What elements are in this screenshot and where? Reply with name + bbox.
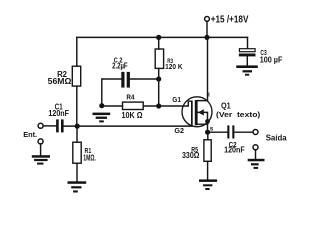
junction node R3-C2 [156, 76, 161, 81]
wire C2 right lead [130, 78, 159, 80]
junction node source [205, 130, 210, 135]
svg-text:Saída: Saída [266, 133, 287, 143]
junction node C1-R2-G2 [75, 124, 80, 129]
svg-text:100 µF: 100 µF [260, 55, 283, 64]
ground at C2-R4 node [93, 113, 111, 116]
terminal Ent lower circle [38, 139, 43, 144]
svg-text:1MΩ.: 1MΩ. [83, 153, 96, 162]
wire source to output capacitor [208, 131, 228, 133]
wire R1 top [76, 126, 78, 142]
wire R4 left lead [102, 105, 123, 107]
svg-text:330Ω: 330Ω [182, 151, 200, 160]
wire node C2 to node R4 [158, 79, 160, 106]
svg-text:56MΩ: 56MΩ [48, 76, 72, 86]
ground at Saida [248, 159, 265, 162]
wire R4 right lead [143, 105, 159, 107]
svg-text:d: d [207, 92, 210, 98]
wire Q1 drain stub [198, 37, 208, 100]
svg-text:120nF: 120nF [48, 109, 69, 118]
wire R5 top [207, 132, 209, 140]
junction node C2-R4 ground [99, 103, 104, 108]
wire input to C1 [43, 125, 56, 127]
transistor Q1 body circle [182, 97, 212, 127]
supply terminal circle [205, 17, 210, 22]
wire R5 bottom [207, 161, 209, 179]
transistor Q1 substrate arrow head [198, 109, 204, 115]
svg-text:G2: G2 [174, 126, 184, 135]
wire top supply rail [77, 36, 248, 38]
wire C3 branch from rail [247, 37, 249, 48]
svg-text:R4: R4 [126, 93, 135, 102]
resistor R3 [155, 49, 163, 68]
ground at R5 [199, 179, 217, 182]
svg-text:120 K: 120 K [165, 64, 183, 71]
wire Saida ground stem [255, 150, 257, 159]
transistor Q1 channel bar [195, 100, 198, 125]
wire Q1 source stub [198, 124, 208, 132]
terminal Saida lower circle [253, 145, 258, 150]
wire C1 to G2 [64, 125, 192, 127]
svg-text:2.2µF: 2.2µF [112, 62, 128, 71]
svg-text:10K Ω: 10K Ω [122, 110, 143, 120]
ground at R1 [68, 181, 87, 184]
svg-text:Ent.: Ent. [23, 130, 37, 139]
svg-text:(Ver texto): (Ver texto) [216, 111, 261, 119]
capacitor C3 bottom plate [239, 54, 256, 57]
wire R3 top [158, 37, 160, 49]
wire R1 bottom [76, 163, 78, 181]
wire R2 bottom to input node [76, 86, 78, 126]
wire supply terminal stem [206, 21, 208, 37]
resistor R4 [123, 102, 144, 109]
svg-text:s: s [210, 126, 214, 133]
ground at Ent terminal [32, 155, 50, 158]
capacitor C2 plates (2.2uF) [121, 72, 124, 88]
junction node rail-drain [204, 35, 209, 40]
capacitor C3 top plate [239, 49, 255, 52]
terminal Ent upper circle [38, 123, 43, 128]
svg-text:120nF: 120nF [224, 146, 245, 155]
wire Q1 substrate lead [198, 112, 208, 124]
wire G1 lead [159, 101, 192, 106]
capacitor C1 plates [56, 119, 59, 132]
junction node R4-G1 [156, 103, 161, 108]
wire R2 top [76, 37, 78, 66]
terminal Saida upper circle [253, 130, 258, 135]
resistor R5 [204, 140, 211, 162]
svg-text:G1: G1 [172, 95, 181, 104]
wire Ent ground stem [40, 144, 42, 155]
transistor Q1 gate bar [191, 101, 193, 127]
wire C3 ground stem [246, 56, 248, 65]
wire C2 left lead [102, 79, 122, 106]
svg-text:+15 /+18V: +15 /+18V [211, 15, 249, 26]
svg-text:Q1: Q1 [221, 100, 231, 110]
junction node rail-R3 [156, 35, 161, 40]
wire output capacitor to Saida [234, 131, 253, 133]
wire R3 bottom to node [158, 68, 160, 79]
junction node substrate-source [205, 119, 210, 124]
resistor R2 [72, 66, 80, 86]
resistor R1 [73, 142, 81, 163]
ground at C3 [236, 65, 257, 68]
capacitor C2 output plates (120nF) [227, 125, 229, 138]
